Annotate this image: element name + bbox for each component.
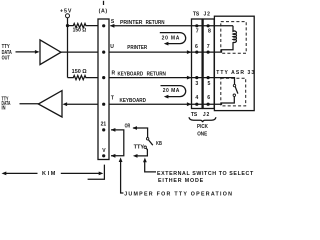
svg-text:TTY ASR 33: TTY ASR 33 [216,70,254,76]
op-amp buffer A2 [38,91,62,117]
bar pin T [102,103,105,106]
svg-text:KB: KB [156,141,162,147]
svg-text:3: 3 [195,81,198,87]
node J2 7 [207,51,210,54]
svg-text:OR: OR [125,123,131,129]
svg-text:7: 7 [196,28,199,34]
svg-text:21: 21 [101,122,107,128]
connector strip J2 [203,19,214,109]
wire +5V down [67,18,69,78]
arrowhead into TS pin 4 [187,102,192,106]
svg-text:RETURN: RETURN [147,72,166,78]
svg-text:TTY: TTY [134,145,145,151]
svg-text:EITHER MODE: EITHER MODE [158,178,204,184]
resistor R2 150 ohm [68,76,99,80]
svg-text:PICK: PICK [197,124,208,130]
svg-text:PRINTER: PRINTER [127,45,147,51]
keyboard contact upper [233,84,235,86]
printer magnet coil [233,26,236,43]
arrowhead into TS pin 3 [187,76,192,80]
svg-text:20 MA: 20 MA [163,88,180,94]
svg-text:8: 8 [208,28,211,34]
node J2 6 [207,103,210,106]
svg-text:ONE: ONE [197,131,208,137]
switch pole contact [146,138,148,140]
svg-text:J2: J2 [203,112,210,118]
op-amp buffer A1 [40,40,61,65]
svg-text:20 MA: 20 MA [162,35,180,41]
tick above bar [103,1,105,5]
switch lever KB [149,140,153,145]
node TS 7 [195,24,198,27]
connector strip TS [192,19,203,109]
svg-text:+5V: +5V [60,9,72,15]
dashed box keyboard contacts [221,78,246,106]
svg-text:TS: TS [191,112,198,118]
svg-text:KIM: KIM [42,171,56,177]
node TS 4 [195,103,198,106]
node TS 6 [195,51,198,54]
wire R keyboard return [110,78,235,85]
svg-text:5: 5 [208,81,211,87]
svg-text:OUT: OUT [2,55,11,61]
wire buffer A1 to bar pin U [61,51,98,53]
svg-text:PRINTER: PRINTER [120,20,143,26]
svg-text:R: R [112,71,116,77]
dashed box printer magnet [221,22,246,54]
wire T keyboard [110,97,235,105]
keyboard contact lower [233,94,235,96]
underbrace [189,117,216,122]
TTY ASR 33 outer box [214,16,254,110]
bar pin U [102,51,105,54]
svg-text:TS: TS [193,11,200,17]
wire TTY throw to V line [137,148,147,156]
svg-text:6: 6 [195,44,198,50]
svg-text:RETURN: RETURN [146,20,165,26]
svg-text:7: 7 [207,44,210,50]
junction node [66,24,69,27]
KIM edge connector bar (A) [98,19,109,160]
switch lever [235,87,238,94]
node J2 8 [207,24,210,27]
wire into buffer A1 [16,51,36,53]
bar pin V [102,154,105,157]
KIM right arrow [61,172,99,174]
wire buffer A2 output [20,103,39,105]
svg-text:6: 6 [207,95,210,101]
bar pin 21 [102,128,105,131]
arrowhead [35,50,40,54]
svg-text:4: 4 [195,95,198,101]
arrowhead at S [110,24,115,28]
svg-text:T: T [111,95,114,101]
switch throw contact TTY [144,146,146,148]
bar pin S [102,24,105,27]
svg-text:KEYBOARD: KEYBOARD [120,98,147,104]
KIM left arrow [6,172,38,174]
svg-text:KEYBOARD: KEYBOARD [118,72,144,78]
svg-text:J2: J2 [204,11,211,17]
svg-text:JUMPER FOR TTY OPERATION: JUMPER FOR TTY OPERATION [124,192,232,198]
svg-text:150 Ω: 150 Ω [73,28,87,34]
svg-text:(A): (A) [99,8,108,14]
board edge line below bar [88,165,105,180]
current loop 20 MA keyboard [161,86,186,97]
callout arrow jumper [121,161,124,193]
callout arrow external switch [145,161,156,172]
wire bar pin T to buffer A2 [67,103,98,105]
switch arrow to 21 line [133,128,148,138]
node TS 3 [195,76,198,79]
svg-text:IN: IN [2,105,6,111]
resistor R1 150 ohm [68,24,99,28]
node J2 5 [207,76,210,79]
arrowhead [63,102,68,106]
svg-text:150 Ω: 150 Ω [72,69,87,75]
wire U printer [110,42,234,52]
+5V terminal [66,14,70,18]
bar pin R [102,76,105,79]
svg-text:U: U [110,44,114,50]
current loop 20 MA printer [160,33,186,44]
svg-text:EXTERNAL SWITCH TO SELECT: EXTERNAL SWITCH TO SELECT [157,171,254,177]
wire S printer return [111,25,234,27]
jumper bracket 21 to V [111,130,124,156]
arrowhead into TS pin 6 [187,50,192,54]
